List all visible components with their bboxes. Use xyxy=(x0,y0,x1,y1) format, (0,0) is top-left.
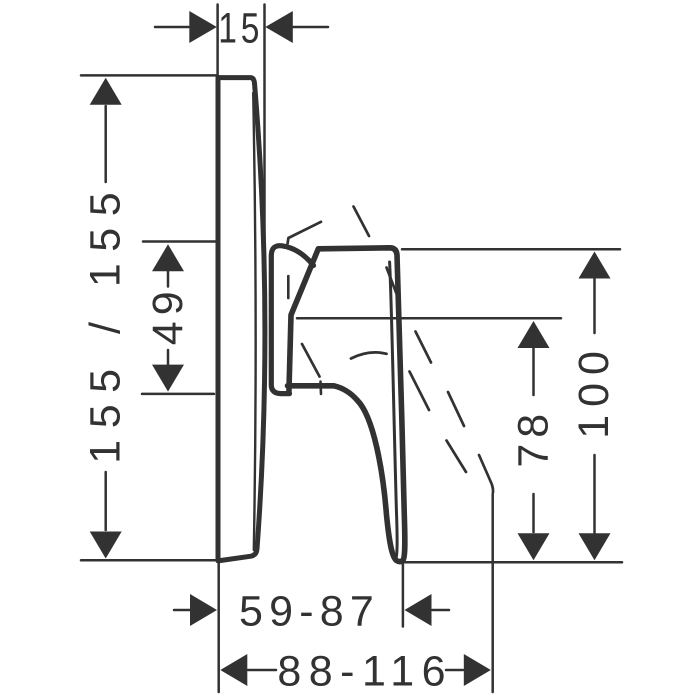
dim 155/155 line lower xyxy=(104,472,107,530)
dashed rotated rear edge segment xyxy=(302,344,320,377)
handle pivot tick xyxy=(287,276,290,298)
dashed rotated underside segment 2 xyxy=(447,441,467,473)
dim 88-116 leader left xyxy=(248,669,276,672)
svg-text:78: 78 xyxy=(510,408,558,468)
dashed rotated front edge tip xyxy=(479,455,493,493)
svg-text:59-87: 59-87 xyxy=(239,588,380,636)
arrowhead dim 100 down xyxy=(579,533,611,560)
dim 155/155 extension line top xyxy=(81,74,217,77)
dim 100 line lower xyxy=(593,455,596,534)
dim 15 extension line left xyxy=(216,5,219,77)
dim 15 extension line right xyxy=(263,5,266,251)
dim 78 line upper xyxy=(532,348,535,395)
wall plate rim inner line xyxy=(253,93,255,550)
dim 100 extension line top xyxy=(402,248,620,251)
dim 155/155 line upper xyxy=(104,106,107,182)
arrowhead dim 49 down xyxy=(152,365,184,392)
dim 88-116 extension line left xyxy=(217,563,220,692)
dim 78 line lower xyxy=(532,494,535,532)
dim 49 line upper xyxy=(167,271,170,287)
handle front face inner line xyxy=(390,262,398,558)
svg-text:15: 15 xyxy=(218,5,263,53)
dim 15 leader left xyxy=(155,26,189,29)
svg-text:100: 100 xyxy=(570,343,618,439)
handle underside tick xyxy=(319,382,322,395)
arrowhead dim 78 up xyxy=(518,321,550,348)
dim 100 line upper xyxy=(593,279,596,333)
arrowhead dim 155 up xyxy=(90,78,122,105)
dim 100/78 extension line bottom xyxy=(405,561,622,564)
dashed rotated front edge segment 3 xyxy=(416,332,432,363)
arrowhead dim 88-116 right xyxy=(464,654,491,686)
arrowhead dim 155 down xyxy=(90,532,122,559)
svg-text:88-116: 88-116 xyxy=(277,648,453,696)
dim 59-87 extension line right xyxy=(402,563,405,627)
arrowhead dim 88-116 left xyxy=(220,654,247,686)
arrowhead dim 59-87 right xyxy=(405,594,432,626)
arrowhead dim 78 down xyxy=(518,533,550,560)
dashed rotated front edge segment 4 xyxy=(448,392,464,426)
dim 59-87 leader right xyxy=(432,609,449,612)
svg-text:49: 49 xyxy=(144,285,192,345)
dim 88-116 extension line right xyxy=(491,494,494,692)
arrowhead dim 15 left xyxy=(189,11,217,43)
cartridge sleeve xyxy=(271,246,313,394)
dim 49 extension line top xyxy=(143,240,216,243)
wall plate outline xyxy=(218,78,265,561)
dim 88-116 leader right xyxy=(446,669,463,672)
dashed rotated front edge segment 2 xyxy=(387,268,398,296)
handle lever outline xyxy=(288,248,405,562)
dashed rotated underside segment 1 xyxy=(410,372,430,411)
handle thumb arc xyxy=(351,352,387,358)
dim 49 line lower xyxy=(167,350,170,365)
dashed rotated handle top edge xyxy=(288,222,321,244)
svg-text:155 / 155: 155 / 155 xyxy=(82,181,130,464)
dim 59-87 leader left xyxy=(174,609,190,612)
arrowhead dim 15 right xyxy=(265,11,293,43)
dim 155/155 extension line bottom xyxy=(81,559,217,562)
dim 15 leader right xyxy=(294,26,329,29)
dim 78 extension line top xyxy=(297,317,561,320)
arrowhead dim 59-87 left xyxy=(190,594,217,626)
dim 49 extension line bottom xyxy=(142,393,214,396)
dashed rotated front edge segment 1 xyxy=(354,207,370,237)
arrowhead dim 49 up xyxy=(152,244,184,271)
arrowhead dim 100 up xyxy=(579,252,611,279)
